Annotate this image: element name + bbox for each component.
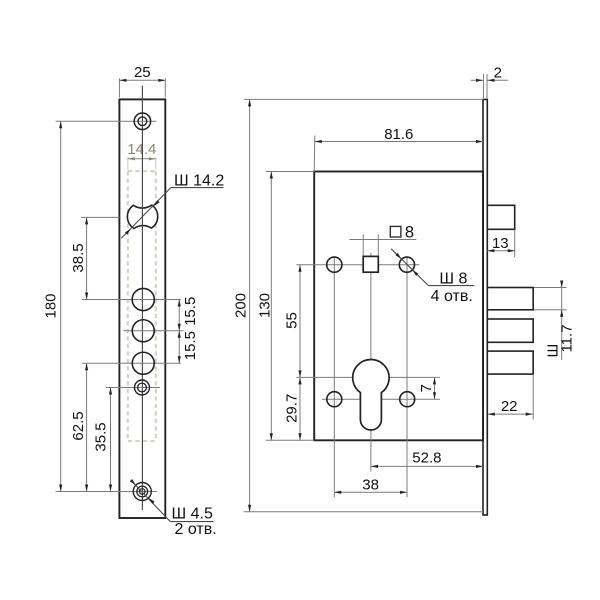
- 2-dim right extension: [486, 74, 488, 98]
- deadbolt pin 3: [487, 351, 533, 374]
- square left extension: [362, 234, 364, 256]
- svg-text:14.4: 14.4: [127, 141, 156, 158]
- dimension 62.5: [86, 363, 88, 491]
- dimension 25 (plate width): [118, 78, 120, 97]
- dimension 38.5: [86, 217, 88, 299]
- svg-text:Ш 14.2: Ш 14.2: [174, 172, 224, 189]
- svg-text:15.5: 15.5: [182, 331, 199, 360]
- dimension 38: [334, 491, 407, 493]
- strip top extension: [244, 98, 483, 100]
- latch cutout (bone shape): [127, 205, 157, 228]
- left hole vertical centerline: [333, 257, 335, 497]
- label square 8: [390, 226, 401, 237]
- latch bolt (side): [487, 205, 514, 229]
- cylinder centerline horizontal: [296, 376, 440, 378]
- svg-text:62.5: 62.5: [70, 411, 87, 440]
- latch centerline ext: [81, 216, 120, 218]
- bolt1 bottom extension: [534, 309, 567, 311]
- body top extension: [266, 171, 315, 173]
- deadbolt pin 2: [487, 319, 533, 342]
- bolt end extension: [532, 374, 534, 419]
- cylinder fixing hole left: [327, 392, 342, 407]
- svg-text:200: 200: [232, 293, 249, 318]
- right hole vertical centerline: [406, 257, 408, 497]
- dimension 29.7: [299, 377, 301, 440]
- dimension 81.6: [315, 141, 483, 143]
- callout leader Ш 8 4 holes: [391, 249, 428, 286]
- plate vertical centerline: [141, 86, 143, 510]
- bolt1 top extension: [534, 287, 567, 289]
- svg-text:35.5: 35.5: [92, 422, 109, 451]
- faceplate plate outline: [119, 99, 165, 518]
- svg-text:15.5: 15.5: [182, 297, 199, 326]
- cylinder vertical centerline: [370, 253, 372, 472]
- 2-dim left extension: [482, 74, 484, 98]
- hole 3: [132, 352, 154, 374]
- hole 1 centerline: [82, 299, 181, 301]
- svg-text:38.5: 38.5: [70, 243, 87, 272]
- svg-text:81.6: 81.6: [384, 126, 413, 143]
- svg-text:130: 130: [257, 293, 274, 318]
- svg-text:Ш: Ш: [545, 344, 562, 358]
- svg-text:7: 7: [418, 384, 435, 392]
- small hole: [135, 380, 150, 395]
- svg-text:38: 38: [362, 477, 379, 494]
- svg-text:Ш 4.5: Ш 4.5: [172, 505, 213, 522]
- svg-text:2: 2: [494, 64, 502, 81]
- svg-text:180: 180: [43, 293, 60, 318]
- dimension 200: [249, 99, 251, 511]
- hole 2 centerline: [124, 330, 184, 332]
- spindle side hole left: [327, 257, 342, 272]
- dimension 15.5 upper: [178, 300, 180, 331]
- dimension 11.7 (bolt diameter): [561, 282, 563, 360]
- bottom screw hole centerline: [56, 491, 158, 493]
- svg-text:13: 13: [492, 235, 509, 252]
- hole 3 centerline: [82, 362, 181, 364]
- dimension 2 (faceplate thickness): [471, 79, 483, 81]
- square callout shelf: [349, 239, 416, 241]
- svg-text:2 отв.: 2 отв.: [175, 521, 217, 538]
- svg-text:52.8: 52.8: [412, 450, 441, 467]
- callout leader Ш 14.2 (latch cutout): [121, 188, 171, 239]
- svg-text:22: 22: [501, 398, 518, 415]
- svg-text:29.7: 29.7: [283, 394, 300, 423]
- dimension 52.8: [371, 465, 483, 467]
- svg-text:55: 55: [283, 312, 300, 329]
- hole 1: [132, 288, 154, 310]
- dimension 7 (hole offset): [434, 378, 436, 399]
- svg-text:8: 8: [405, 224, 414, 242]
- square right extension: [377, 234, 379, 256]
- bottom screw hole: [133, 483, 151, 501]
- strip bottom extension: [244, 511, 484, 513]
- dimension 22 (bolt throw): [488, 413, 533, 415]
- dimension 180: [60, 121, 62, 491]
- hole 2: [132, 320, 154, 342]
- dimension 13 (latch width): [487, 250, 514, 252]
- callout leader Ш 4.5 2 holes (screw holes): [131, 480, 171, 521]
- svg-text:25: 25: [134, 64, 151, 81]
- top screw hole centerline: [56, 120, 157, 122]
- dimension 14.4 (slot width, reference): [127, 157, 129, 169]
- dimension 130: [270, 172, 272, 441]
- small hole centerline: [106, 387, 160, 389]
- spindle side hole right: [399, 257, 414, 272]
- faceplate edge strip (side view): [483, 99, 487, 515]
- cylinder fixing hole right: [400, 392, 415, 407]
- top screw hole: [134, 113, 151, 130]
- body bottom extension: [266, 439, 315, 441]
- 81.6 left extension: [313, 136, 316, 172]
- dimension 15.5 lower: [178, 331, 180, 364]
- hidden slot dashed outline: [127, 171, 129, 441]
- dimension 55: [299, 265, 301, 378]
- lock body outline: [314, 172, 483, 441]
- deadbolt pin 1: [487, 288, 533, 310]
- dimension 35.5: [110, 388, 112, 492]
- square spindle hole 8x8: [363, 256, 378, 272]
- fixing holes centerline: [322, 398, 440, 400]
- svg-text:4 отв.: 4 отв.: [431, 288, 473, 305]
- euro cylinder keyhole: [353, 360, 389, 430]
- latch right extension: [514, 229, 516, 257]
- spindle holes centerline: [296, 264, 419, 266]
- svg-text:Ш 8: Ш 8: [439, 271, 467, 288]
